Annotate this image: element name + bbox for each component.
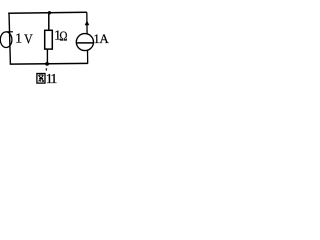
wire resistor top lead	[48, 13, 50, 31]
resistor R1 box	[45, 30, 53, 49]
wire top rail	[8, 12, 87, 13]
current source I1 circle	[76, 34, 93, 51]
current source diameter bar	[76, 42, 93, 44]
current source arrow head (up)	[85, 20, 90, 25]
caption text 11	[46, 72, 58, 87]
wire right edge top lead	[86, 12, 88, 34]
svg-text:1: 1	[15, 32, 22, 47]
svg-text:Ω: Ω	[59, 28, 67, 44]
caption glyph 图 (drawn)	[37, 68, 46, 83]
wire right edge bottom lead	[87, 50, 89, 63]
svg-text:1: 1	[50, 72, 57, 87]
svg-text:V: V	[24, 31, 33, 47]
node top junction dot	[48, 11, 51, 14]
label 1A	[93, 31, 109, 46]
voltage source plus polarity bar	[7, 31, 13, 33]
node bottom junction dot	[45, 62, 49, 66]
wire left edge (through voltage source)	[9, 13, 10, 64]
wire resistor bottom lead	[46, 49, 48, 64]
voltage source U1 circle	[0, 32, 12, 48]
wire bottom rail	[10, 62, 88, 65]
svg-text:A: A	[99, 31, 109, 46]
label 1Ω	[54, 28, 67, 44]
label 1V	[15, 31, 33, 47]
